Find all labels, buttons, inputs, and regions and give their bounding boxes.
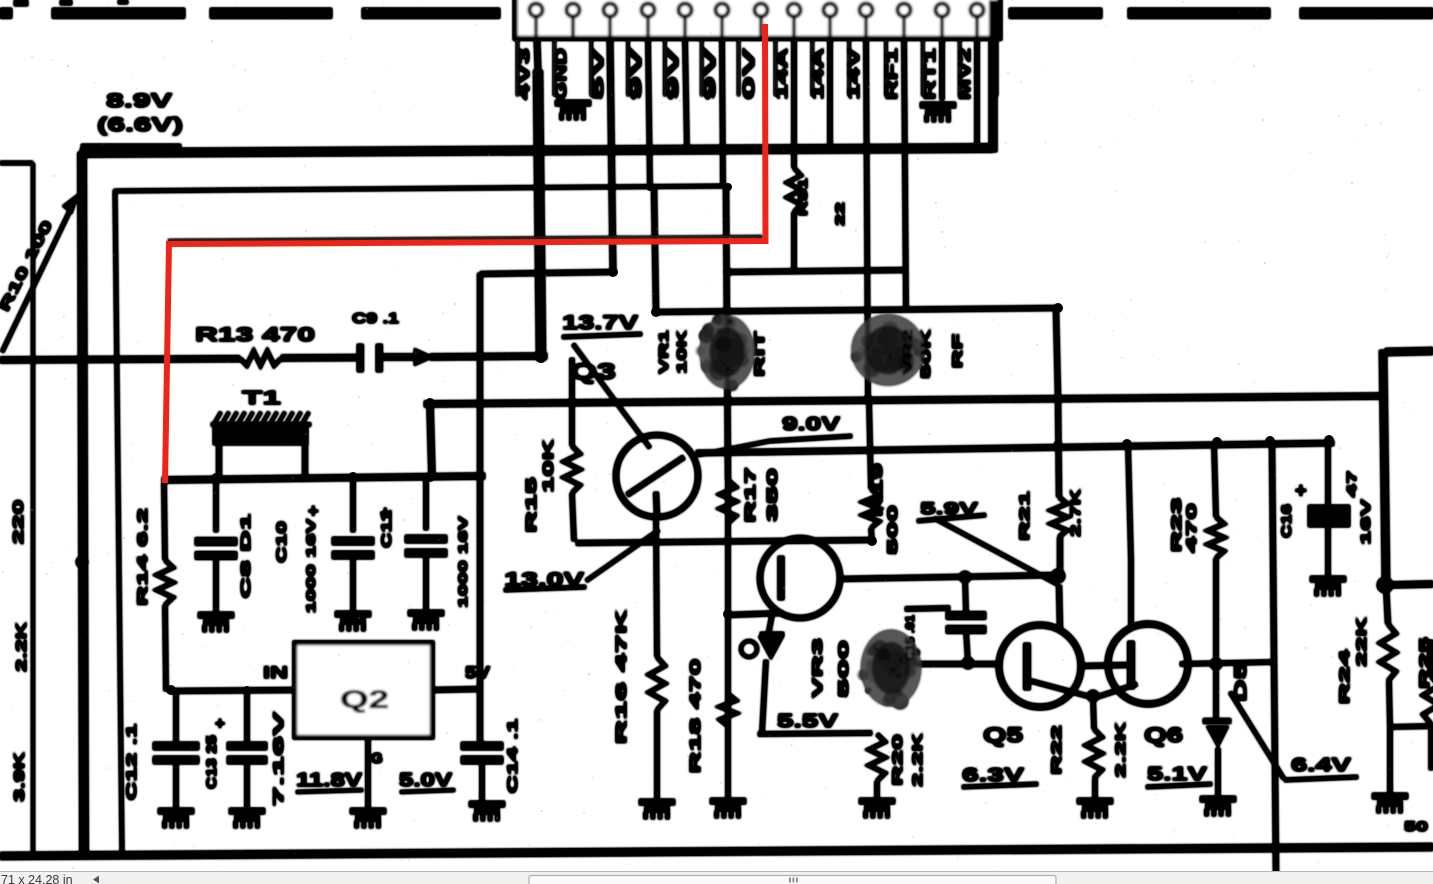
svg-text:22K: 22K	[1354, 616, 1369, 667]
svg-text:1000 16V: 1000 16V	[456, 516, 470, 608]
svg-text:GND: GND	[553, 48, 570, 100]
svg-text:2.2K: 2.2K	[910, 733, 925, 787]
svg-text:R21: R21	[1016, 491, 1032, 541]
svg-text:(6.6V): (6.6V)	[97, 115, 183, 136]
svg-text:RF1: RF1	[884, 47, 901, 100]
svg-text:6.3V: 6.3V	[962, 765, 1024, 785]
svg-text:C8 D1: C8 D1	[238, 514, 253, 599]
svg-text:RF: RF	[949, 333, 965, 369]
svg-text:9V: 9V	[628, 46, 645, 100]
svg-text:470: 470	[1184, 503, 1199, 553]
svg-text:500: 500	[835, 639, 851, 698]
svg-text:9V: 9V	[702, 46, 719, 100]
svg-text:1000 16V: 1000 16V	[304, 519, 318, 614]
svg-text:C13 25: C13 25	[204, 734, 219, 789]
svg-text:10K: 10K	[674, 329, 689, 374]
svg-text:14A: 14A	[810, 48, 827, 100]
svg-text:IN: IN	[263, 663, 288, 682]
svg-text:R20: R20	[890, 734, 905, 786]
svg-text:2.2K: 2.2K	[1113, 722, 1128, 778]
svg-text:R15: R15	[524, 477, 540, 533]
svg-text:C14 .1: C14 .1	[505, 718, 520, 794]
svg-text:VR1: VR1	[656, 330, 671, 374]
svg-text:9V: 9V	[665, 46, 682, 100]
svg-text:G: G	[371, 750, 383, 767]
svg-text:14V: 14V	[846, 47, 863, 100]
svg-text:T1: T1	[242, 388, 281, 408]
svg-text:5V: 5V	[590, 46, 607, 100]
svg-text:500: 500	[884, 505, 900, 555]
svg-text:R51: R51	[798, 177, 810, 216]
svg-text:C15 .01: C15 .01	[905, 614, 917, 661]
svg-text:C11: C11	[378, 510, 394, 548]
svg-text:14A: 14A	[774, 48, 791, 100]
svg-text:R24: R24	[1337, 648, 1352, 704]
svg-text:7.16V: 7.16V	[270, 710, 286, 807]
svg-text:RT1: RT1	[922, 47, 939, 100]
svg-text:2.7K: 2.7K	[1067, 489, 1083, 537]
svg-text:5.0V: 5.0V	[399, 770, 452, 790]
svg-text:22: 22	[835, 202, 847, 226]
svg-text:Q6: Q6	[1144, 724, 1183, 747]
svg-text:R23: R23	[1169, 496, 1184, 552]
svg-text:5.1V: 5.1V	[1147, 764, 1207, 784]
svg-text:VR2: VR2	[900, 329, 915, 375]
svg-text:11.8V: 11.8V	[296, 770, 362, 790]
svg-text:C10: C10	[273, 521, 289, 563]
svg-text:+: +	[308, 501, 319, 521]
svg-text:R22: R22	[1049, 725, 1064, 775]
svg-text:71 x 24.28 in: 71 x 24.28 in	[1, 873, 73, 884]
svg-text:0V: 0V	[741, 46, 758, 100]
svg-text:5.5V: 5.5V	[777, 711, 838, 731]
svg-text:R18 470: R18 470	[687, 659, 704, 774]
svg-text:4V3: 4V3	[516, 47, 533, 100]
svg-text:Q5: Q5	[983, 724, 1023, 747]
svg-text:16V: 16V	[1359, 498, 1373, 545]
svg-text:50: 50	[1404, 818, 1428, 834]
svg-text:9.0V: 9.0V	[782, 414, 840, 434]
svg-text:13.7V: 13.7V	[562, 313, 638, 334]
svg-text:8.9V: 8.9V	[106, 91, 173, 112]
svg-text:R16 47K: R16 47K	[613, 609, 630, 744]
svg-text:R19: R19	[869, 463, 885, 517]
svg-text:2.2K: 2.2K	[13, 622, 30, 672]
svg-text:Q2: Q2	[340, 686, 389, 714]
svg-text:+: +	[215, 714, 225, 733]
svg-text:+: +	[1295, 480, 1307, 502]
svg-text:350: 350	[765, 468, 781, 522]
svg-text:5V: 5V	[465, 663, 491, 682]
svg-text:MV2: MV2	[957, 48, 974, 100]
svg-text:6.4V: 6.4V	[1291, 755, 1351, 775]
svg-text:50K: 50K	[918, 328, 933, 379]
svg-text:47: 47	[1345, 470, 1359, 497]
svg-text:R13 470: R13 470	[195, 325, 315, 346]
svg-text:220: 220	[10, 500, 27, 545]
svg-text:R14 6.2: R14 6.2	[135, 508, 150, 606]
svg-text:Q3: Q3	[570, 359, 616, 384]
svg-text:VR3: VR3	[809, 638, 825, 698]
svg-text:3.9K: 3.9K	[11, 752, 28, 802]
svg-text:10K: 10K	[541, 438, 557, 493]
svg-text:R17: R17	[743, 467, 759, 523]
svg-text:C12 .1: C12 .1	[124, 723, 139, 801]
svg-text:RIT: RIT	[751, 330, 767, 377]
svg-text:C16: C16	[1279, 503, 1294, 538]
